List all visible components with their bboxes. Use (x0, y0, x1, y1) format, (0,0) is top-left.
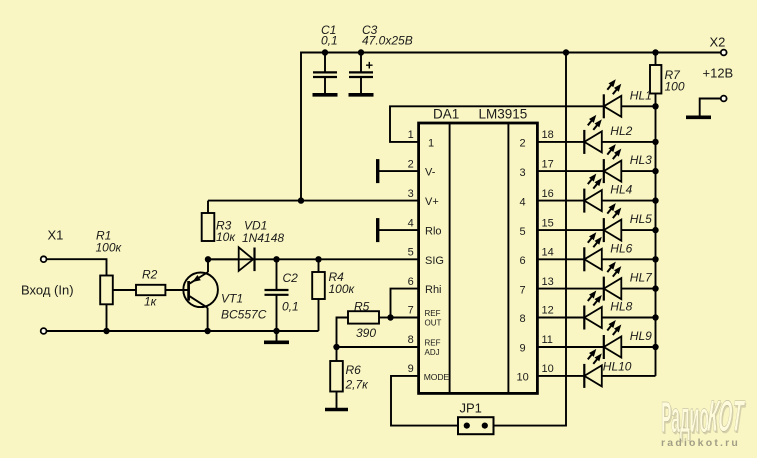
svg-text:HL4: HL4 (610, 183, 632, 197)
svg-text:+12В: +12В (703, 66, 734, 81)
svg-text:HL5: HL5 (630, 212, 652, 226)
svg-text:MODE: MODE (424, 372, 450, 382)
svg-text:X2: X2 (710, 35, 726, 50)
svg-text:17: 17 (542, 158, 554, 170)
svg-text:12: 12 (542, 305, 554, 317)
svg-text:0,1: 0,1 (282, 300, 299, 314)
svg-text:LM3915: LM3915 (479, 107, 528, 122)
svg-text:100к: 100к (329, 282, 356, 296)
svg-text:13: 13 (542, 276, 554, 288)
svg-text:1: 1 (408, 129, 414, 141)
svg-text:C2: C2 (283, 271, 299, 285)
svg-text:390: 390 (356, 326, 376, 340)
svg-text:2: 2 (408, 158, 414, 170)
svg-text:6: 6 (520, 255, 526, 267)
svg-text:100к: 100к (96, 241, 123, 255)
svg-text:0,1: 0,1 (321, 33, 338, 47)
svg-text:R2: R2 (142, 268, 158, 282)
svg-text:47.0x25В: 47.0x25В (362, 33, 413, 47)
svg-text:100: 100 (665, 80, 685, 94)
svg-text:VT1: VT1 (221, 292, 243, 306)
svg-text:REF: REF (425, 309, 441, 318)
svg-text:HL9: HL9 (630, 329, 652, 343)
svg-text:Rhi: Rhi (425, 284, 442, 296)
svg-text:HL1: HL1 (630, 88, 652, 102)
svg-text:9: 9 (408, 363, 414, 375)
svg-text:Rlo: Rlo (425, 226, 442, 238)
svg-text:X1: X1 (48, 228, 64, 243)
svg-text:2: 2 (520, 138, 526, 150)
svg-text:10к: 10к (216, 230, 236, 244)
svg-text:18: 18 (542, 129, 554, 141)
svg-text:HL7: HL7 (630, 271, 653, 285)
svg-text:SIG: SIG (425, 255, 444, 267)
svg-text:3: 3 (520, 167, 526, 179)
svg-text:HL2: HL2 (610, 124, 632, 138)
svg-text:radiokot.ru: radiokot.ru (661, 437, 740, 449)
svg-text:HL8: HL8 (610, 300, 632, 314)
svg-text:7: 7 (408, 305, 414, 317)
svg-text:14: 14 (542, 247, 554, 259)
svg-text:8: 8 (520, 313, 526, 325)
svg-text:1к: 1к (144, 295, 158, 309)
svg-text:Вход (In): Вход (In) (21, 283, 74, 298)
svg-text:OUT: OUT (425, 319, 442, 328)
svg-text:2,7к: 2,7к (345, 378, 370, 392)
svg-text:10: 10 (542, 363, 554, 375)
svg-text:4: 4 (520, 196, 526, 208)
svg-text:15: 15 (542, 217, 554, 229)
svg-text:7: 7 (520, 284, 526, 296)
svg-text:V+: V+ (425, 196, 439, 208)
svg-text:4: 4 (408, 217, 414, 229)
svg-text:R6: R6 (346, 363, 362, 377)
svg-text:HL3: HL3 (630, 153, 652, 167)
svg-text:+: + (366, 58, 374, 73)
svg-text:8: 8 (408, 334, 414, 346)
svg-text:V-: V- (425, 167, 436, 179)
svg-text:1N4148: 1N4148 (242, 231, 284, 245)
svg-text:10: 10 (516, 372, 528, 384)
svg-text:REF: REF (425, 339, 441, 348)
svg-text:КОТ: КОТ (706, 393, 746, 441)
svg-text:5: 5 (520, 226, 526, 238)
svg-text:R5: R5 (354, 300, 370, 314)
svg-text:Радио: Радио (661, 392, 709, 441)
svg-text:1: 1 (428, 137, 434, 149)
svg-text:DA1: DA1 (433, 107, 459, 122)
svg-text:9: 9 (520, 343, 526, 355)
svg-text:6: 6 (408, 276, 414, 288)
svg-text:3: 3 (408, 188, 414, 200)
svg-text:16: 16 (542, 188, 554, 200)
svg-text:JP1: JP1 (460, 401, 482, 416)
svg-text:HL10: HL10 (603, 359, 632, 373)
svg-text:11: 11 (542, 334, 553, 346)
svg-text:ADJ: ADJ (425, 348, 440, 357)
svg-text:BC557C: BC557C (221, 308, 267, 322)
svg-text:HL6: HL6 (610, 241, 632, 255)
svg-text:5: 5 (408, 247, 414, 259)
